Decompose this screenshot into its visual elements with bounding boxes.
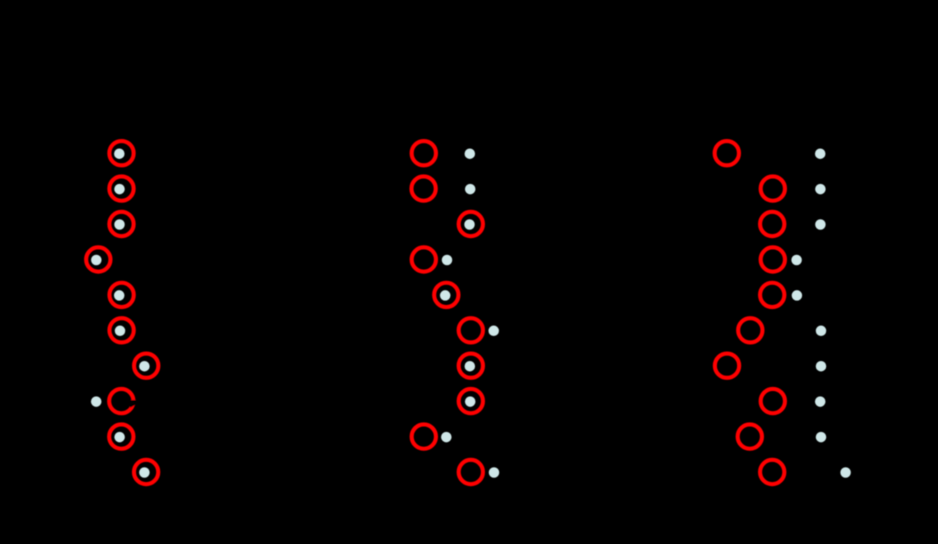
left panel row 2 ring marker: [109, 176, 133, 200]
right panel row 7 ring marker: [715, 354, 739, 378]
right panel row 9 ring marker: [738, 424, 762, 448]
middle panel row 6 dot marker: [488, 326, 499, 337]
left panel row 10 dot marker: [139, 467, 150, 478]
right panel row 8 dot marker: [815, 396, 826, 407]
left panel row 10 ring marker: [134, 460, 158, 484]
right panel row 5 ring marker: [760, 283, 784, 307]
middle panel row 10 ring marker: [459, 460, 483, 484]
middle panel row 3 dot marker: [464, 219, 475, 230]
left panel row 3 dot marker: [114, 219, 125, 230]
middle panel row 7 dot marker: [465, 361, 476, 372]
right panel row 7 dot marker: [816, 361, 827, 372]
middle panel row 5 dot marker: [440, 290, 451, 301]
right panel row 2 dot marker: [815, 184, 826, 195]
left panel row 2 dot marker: [114, 184, 125, 195]
middle panel row 7 ring marker: [459, 354, 483, 378]
left panel row 3 ring marker: [109, 212, 133, 236]
middle panel row 8 dot marker: [465, 396, 476, 407]
right panel row 8 ring marker: [761, 389, 785, 413]
left panel row 7 ring marker: [134, 354, 158, 378]
right panel row 1 dot marker: [815, 148, 826, 159]
right panel row 3 ring marker: [760, 212, 784, 236]
middle panel row 9 dot marker: [441, 432, 452, 443]
right panel row 6 ring marker: [738, 318, 762, 342]
left panel row 8 dot marker: [91, 396, 102, 407]
right panel row 5 dot marker: [792, 290, 803, 301]
left panel row 1 dot marker: [114, 148, 125, 159]
left panel row 6 dot marker: [115, 326, 126, 337]
middle panel row 8 ring marker: [459, 389, 483, 413]
left panel row 5 ring marker: [109, 283, 133, 307]
middle panel row 1 dot marker: [465, 148, 476, 159]
left panel row 5 dot marker: [114, 290, 125, 301]
middle panel row 4 ring marker: [412, 247, 436, 271]
left panel row 9 dot marker: [114, 432, 125, 443]
middle panel row 5 ring marker: [434, 283, 458, 307]
middle panel row 1 ring marker: [412, 141, 436, 165]
middle panel row 6 ring marker: [459, 318, 483, 342]
left panel row 4 dot marker: [91, 255, 102, 266]
middle panel row 10 dot marker: [489, 467, 500, 478]
middle panel row 3 ring marker: [459, 212, 483, 236]
middle panel row 2 ring marker: [411, 176, 435, 200]
left panel row 1 ring marker: [109, 141, 133, 165]
right panel row 3 dot marker: [815, 219, 826, 230]
right panel row 2 ring marker: [761, 176, 785, 200]
right panel row 1 ring marker: [715, 141, 739, 165]
left panel row 6 ring marker: [109, 318, 133, 342]
middle panel row 2 dot marker: [465, 184, 476, 195]
right panel row 10 ring marker: [760, 460, 784, 484]
right panel row 9 dot marker: [816, 432, 827, 443]
left panel row 4 ring marker: [86, 247, 110, 271]
middle panel row 4 dot marker: [442, 255, 453, 266]
right panel row 6 dot marker: [816, 326, 827, 337]
right panel row 4 dot marker: [791, 255, 802, 266]
left panel row 8 ring marker: [109, 389, 133, 413]
right panel row 10 dot marker: [840, 467, 851, 478]
left panel row 9 ring marker: [109, 424, 133, 448]
left panel row 7 dot marker: [139, 361, 150, 372]
middle panel row 9 ring marker: [412, 424, 436, 448]
right panel row 4 ring marker: [761, 247, 785, 271]
black occlusion notch on left panel row 8 ring (hidden text overlap): [129, 400, 142, 408]
